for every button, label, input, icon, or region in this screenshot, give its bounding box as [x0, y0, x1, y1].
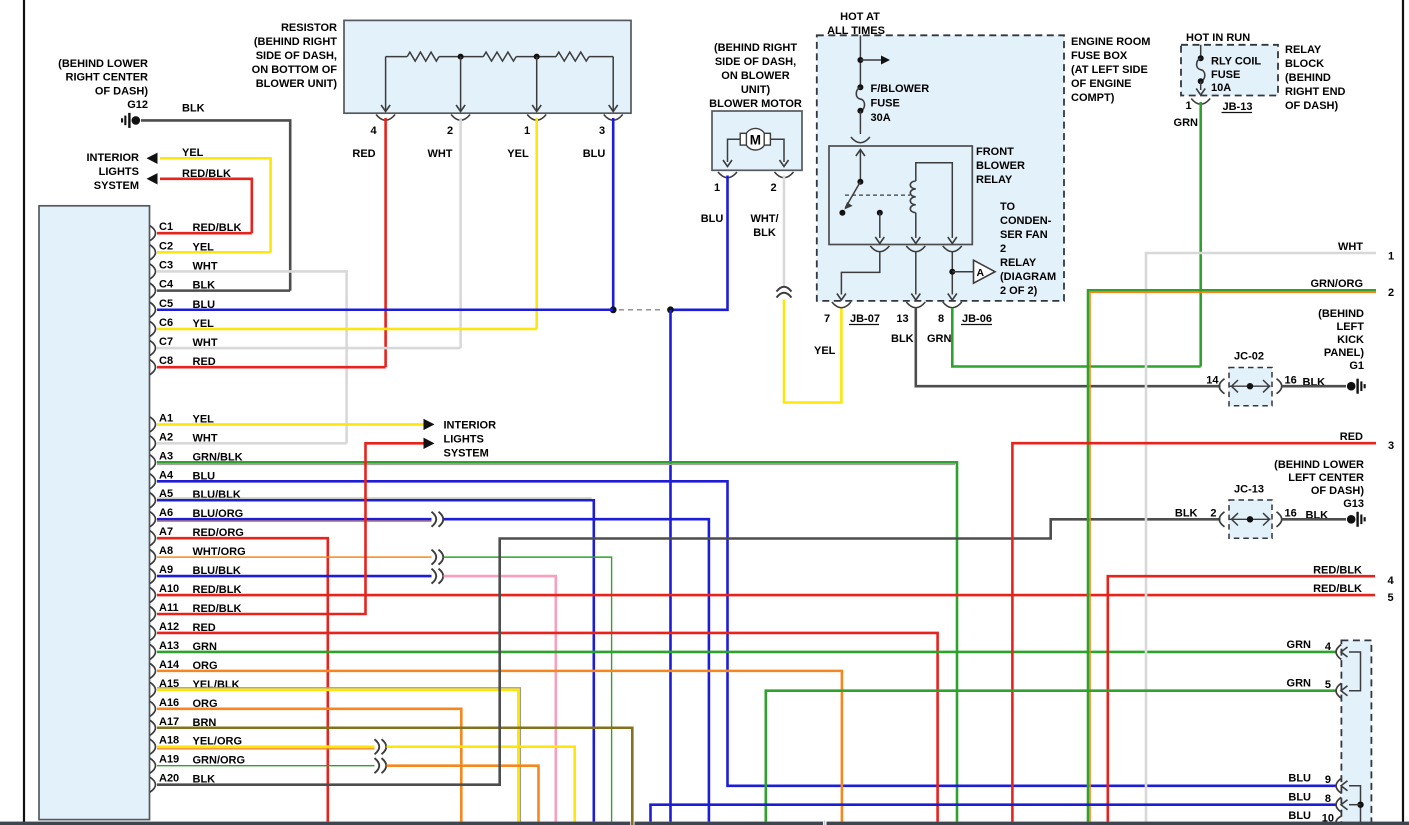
svg-text:A12: A12 — [159, 621, 179, 633]
svg-text:1: 1 — [714, 182, 720, 194]
terminal A16 — [150, 701, 156, 716]
svg-text:YEL: YEL — [814, 345, 836, 357]
wire A6 BLU/ORG — [157, 518, 432, 521]
svg-text:GRN/ORG: GRN/ORG — [1310, 278, 1363, 290]
svg-text:ON BOTTOM OF: ON BOTTOM OF — [252, 64, 338, 76]
svg-text:2 OF 2): 2 OF 2) — [1000, 285, 1038, 297]
wire A10 RED/BLK to edge wire 5 — [157, 594, 1375, 597]
resistor block box — [344, 20, 631, 113]
cup above relay — [851, 137, 870, 143]
svg-text:RELAY: RELAY — [976, 174, 1013, 186]
svg-text:SIDE OF DASH,: SIDE OF DASH, — [715, 56, 796, 68]
svg-text:A10: A10 — [159, 583, 179, 595]
svg-text:JB-07: JB-07 — [850, 313, 880, 325]
arrow interior lights A11 — [424, 438, 435, 449]
inline connector on WHT/BLK wire — [777, 287, 792, 292]
svg-text:3: 3 — [599, 125, 605, 137]
rly coil fuse 10A — [1200, 45, 1202, 58]
svg-text:JB-13: JB-13 — [1223, 101, 1253, 113]
relay switch common dot — [857, 179, 863, 185]
svg-text:RESISTOR: RESISTOR — [281, 22, 337, 34]
jumper GRN 4-5 — [1349, 652, 1361, 691]
svg-text:A14: A14 — [159, 659, 180, 671]
svg-text:PANEL): PANEL) — [1324, 347, 1364, 359]
svg-text:HOT AT: HOT AT — [840, 11, 880, 23]
wire A8 WHT/ORG — [157, 556, 432, 558]
wire BLU node down to bottom — [669, 310, 672, 822]
svg-text:RED: RED — [1340, 431, 1363, 443]
wire WHT edge 1 — [1146, 253, 1376, 822]
inline connector A18 — [375, 739, 380, 754]
wire A3 GRN/BLK — [157, 462, 957, 821]
svg-text:A7: A7 — [159, 526, 173, 538]
svg-text:SYSTEM: SYSTEM — [94, 180, 139, 192]
motor lead 2 — [770, 139, 784, 162]
svg-text:BLU: BLU — [1288, 792, 1311, 804]
terminal A13 — [150, 644, 156, 659]
front blower relay box — [829, 146, 972, 245]
arrow to interior lights YEL — [147, 153, 158, 164]
svg-text:A11: A11 — [159, 602, 179, 614]
terminal A3 — [150, 455, 156, 470]
svg-text:BLU: BLU — [1288, 773, 1311, 785]
svg-text:2: 2 — [447, 125, 453, 137]
terminal A20 — [150, 777, 156, 792]
svg-text:KICK: KICK — [1337, 334, 1364, 346]
svg-text:F/BLOWER: F/BLOWER — [871, 83, 930, 95]
terminal A11 — [150, 607, 156, 622]
wire A15 YEL/BLK — [157, 690, 518, 822]
resistor pin 3 lead — [612, 57, 614, 111]
wire BLK JC-02 to G1 — [1282, 385, 1346, 388]
wire BLK JB pin13 to JC-02 — [916, 308, 1221, 386]
svg-text:16: 16 — [1285, 508, 1297, 520]
wire A5 BLU/BLK — [157, 500, 594, 821]
wire A9 BLU/BLK — [157, 575, 432, 578]
svg-text:C1: C1 — [159, 221, 173, 233]
inline connector A19 — [375, 758, 380, 773]
svg-text:YEL: YEL — [182, 147, 204, 159]
svg-text:BLK: BLK — [1175, 508, 1198, 520]
terminal A2 — [150, 436, 156, 451]
svg-text:TO: TO — [1000, 201, 1016, 213]
svg-text:G12: G12 — [127, 99, 148, 111]
wire YEL blower pin2 to JB-07 pin7 — [784, 300, 841, 403]
terminal C7 — [150, 341, 156, 356]
wire A2 WHT — [157, 442, 347, 445]
ground symbol G12 — [132, 116, 141, 125]
svg-text:(BEHIND LOWER: (BEHIND LOWER — [1274, 459, 1364, 471]
wire GRN JB-13 pin1 down — [1199, 102, 1202, 367]
relay pin wire (switch output) — [879, 213, 881, 238]
terminal A15 — [150, 682, 156, 697]
terminal C5 — [150, 302, 156, 317]
svg-text:SER FAN: SER FAN — [1000, 229, 1048, 241]
svg-text:C8: C8 — [159, 355, 173, 367]
svg-text:9: 9 — [1325, 774, 1331, 786]
wire A19 GRN/ORG — [157, 765, 375, 767]
svg-text:LIGHTS: LIGHTS — [444, 434, 484, 446]
svg-text:1: 1 — [1388, 251, 1394, 263]
svg-text:7: 7 — [824, 313, 830, 325]
svg-text:A6: A6 — [159, 507, 173, 519]
svg-text:8: 8 — [938, 313, 944, 325]
engine room fuse box (dashed) — [817, 35, 1064, 301]
wire A20 BLK to JC-13 — [157, 519, 1221, 784]
ground symbol G13 — [1347, 515, 1356, 524]
svg-text:WHT/ORG: WHT/ORG — [193, 546, 246, 558]
resistor node dot right — [534, 54, 540, 60]
wire WHT resistor pin2 to C7 — [459, 118, 462, 348]
svg-text:(BEHIND: (BEHIND — [1318, 308, 1364, 320]
terminal A14 — [150, 663, 156, 678]
svg-text:5: 5 — [1387, 592, 1393, 604]
svg-text:FUSE BOX: FUSE BOX — [1071, 50, 1128, 62]
resistor pin 1 lead — [536, 57, 538, 111]
svg-text:C6: C6 — [159, 317, 173, 329]
svg-text:LEFT: LEFT — [1337, 321, 1365, 333]
arrow to interior lights RED/BLK — [147, 173, 158, 184]
terminal C2 — [150, 245, 156, 260]
svg-text:16: 16 — [1285, 375, 1297, 387]
svg-text:14: 14 — [1206, 375, 1219, 387]
svg-text:A4: A4 — [159, 469, 174, 481]
svg-text:GRN: GRN — [1287, 678, 1312, 690]
wire BLK JC-13 to G13 — [1282, 518, 1346, 521]
arrow interior lights A1 — [424, 419, 435, 430]
relay bottom cups — [870, 246, 889, 252]
svg-text:(BEHIND RIGHT: (BEHIND RIGHT — [254, 36, 337, 48]
svg-text:5: 5 — [1325, 679, 1331, 691]
svg-text:2: 2 — [1388, 287, 1394, 299]
wire C5 BLU — [157, 308, 613, 311]
svg-text:CONDEN-: CONDEN- — [1000, 215, 1052, 227]
ground symbol G1 — [1347, 382, 1356, 391]
relay coil bottom lead — [915, 213, 917, 238]
resistor element wire with three resistors — [386, 56, 408, 58]
dashed splice link — [619, 309, 664, 311]
svg-text:WHT/: WHT/ — [750, 213, 778, 225]
svg-text:8: 8 — [1325, 793, 1331, 805]
terminal C8 — [150, 360, 156, 375]
svg-text:A2: A2 — [159, 431, 173, 443]
fuse F/BLOWER 30A — [857, 84, 863, 90]
svg-text:BLU: BLU — [1288, 810, 1311, 822]
svg-text:C5: C5 — [159, 298, 173, 310]
wire GRN JB pin8 to relay block — [952, 308, 1200, 367]
svg-text:GRN: GRN — [1287, 639, 1312, 651]
jumper BLU 9-8-10 — [1349, 786, 1361, 823]
svg-text:OF DASH): OF DASH) — [1311, 485, 1365, 497]
terminal A18 — [150, 739, 156, 754]
wire A4 BLU to connector pin9 — [157, 481, 1336, 786]
svg-text:UNIT): UNIT) — [741, 84, 771, 96]
wire RED/BLK interior lights to C1 — [160, 179, 252, 233]
svg-text:BLOWER MOTOR: BLOWER MOTOR — [709, 98, 802, 110]
motor lead 1 — [728, 139, 741, 162]
relay block JB-13 (dashed) — [1181, 45, 1278, 96]
wire fuse to relay — [859, 111, 861, 134]
wire A6 BLU continuation — [444, 519, 709, 821]
svg-text:A19: A19 — [159, 754, 179, 766]
terminal A4 — [150, 474, 156, 489]
wire WHT/BLK blower pin2 down — [783, 176, 786, 288]
svg-text:1: 1 — [524, 125, 530, 137]
svg-text:RED/BLK: RED/BLK — [1313, 565, 1362, 577]
relay actuation dashed link — [845, 194, 910, 196]
svg-text:4: 4 — [1387, 575, 1394, 587]
svg-text:A8: A8 — [159, 545, 173, 557]
terminal C6 — [150, 321, 156, 336]
svg-text:BLK: BLK — [891, 333, 914, 345]
page right border — [1402, 0, 1404, 825]
branch arrow right — [860, 59, 882, 61]
motor M symbol — [745, 128, 767, 150]
svg-text:RELAY: RELAY — [1285, 44, 1322, 56]
resistor node dot left — [458, 54, 464, 60]
node dot blower BLU — [667, 306, 674, 313]
svg-text:A16: A16 — [159, 697, 179, 709]
svg-text:JC-13: JC-13 — [1234, 484, 1264, 496]
svg-text:(BEHIND: (BEHIND — [1285, 72, 1331, 84]
wire A14 ORG — [157, 671, 842, 822]
wire A8 GRN continuation — [444, 557, 612, 821]
svg-text:BLOWER UNIT): BLOWER UNIT) — [256, 78, 338, 90]
terminal A5 — [150, 493, 156, 508]
svg-text:C7: C7 — [159, 336, 173, 348]
svg-text:2: 2 — [1210, 508, 1216, 520]
svg-text:4: 4 — [370, 125, 377, 137]
svg-text:SIDE OF DASH,: SIDE OF DASH, — [256, 50, 337, 62]
resistor pin 2 lead — [460, 57, 462, 111]
wire C1 RED/BLK — [157, 232, 252, 235]
blower motor box — [712, 111, 802, 170]
svg-text:BLK: BLK — [753, 227, 776, 239]
svg-text:A18: A18 — [159, 735, 179, 747]
relay input arrow up — [859, 151, 861, 182]
svg-text:LIGHTS: LIGHTS — [99, 166, 139, 178]
wire A11 RED/BLK to interior lights — [157, 443, 424, 614]
svg-text:30A: 30A — [871, 112, 891, 124]
svg-text:(BEHIND RIGHT: (BEHIND RIGHT — [714, 42, 797, 54]
fuse box bottom cups — [832, 302, 851, 308]
terminal A10 — [150, 588, 156, 603]
terminal C1 — [150, 226, 156, 241]
terminal A6 — [150, 512, 156, 527]
inline connector A9 — [432, 569, 437, 584]
svg-text:WHT: WHT — [427, 148, 452, 160]
wire C2 YEL — [157, 251, 271, 254]
svg-text:WHT: WHT — [1338, 241, 1363, 253]
svg-text:C3: C3 — [159, 259, 173, 271]
page left border — [23, 0, 25, 825]
wire BLU resistor pin3 to node — [612, 118, 615, 310]
bottom edge bar — [0, 822, 630, 825]
terminal A1 — [150, 417, 156, 432]
svg-text:ENGINE ROOM: ENGINE ROOM — [1071, 36, 1150, 48]
wire A9 PNK continuation — [444, 576, 556, 821]
wire A12 RED — [157, 633, 938, 822]
svg-text:10A: 10A — [1211, 82, 1231, 94]
svg-text:RIGHT CENTER: RIGHT CENTER — [66, 72, 149, 84]
wire C6 YEL — [157, 328, 537, 331]
wire BLU blower pin1 to node — [671, 176, 728, 310]
svg-text:JB-06: JB-06 — [962, 313, 992, 325]
wire YEL resistor pin1 to C6 — [535, 118, 538, 329]
inline connector A6 — [432, 512, 437, 527]
svg-text:BLOWER: BLOWER — [976, 160, 1025, 172]
svg-text:A3: A3 — [159, 450, 173, 462]
svg-text:RLY COIL: RLY COIL — [1211, 56, 1261, 68]
svg-text:4: 4 — [1325, 641, 1332, 653]
relay throw contact dot — [877, 210, 883, 216]
svg-text:GRN: GRN — [927, 333, 952, 345]
relay switch contact dot — [839, 210, 845, 216]
svg-text:HOT IN RUN: HOT IN RUN — [1186, 32, 1250, 44]
wire A18 YEL continuation — [387, 747, 575, 822]
svg-text:FRONT: FRONT — [976, 146, 1014, 158]
wire C8 RED — [157, 366, 386, 369]
wire A17 BRN — [157, 728, 632, 825]
resistor pin 4 lead — [385, 57, 387, 111]
wire relay pin to JB-07 terminal 7 — [841, 251, 879, 295]
svg-text:A20: A20 — [159, 773, 179, 785]
svg-text:2: 2 — [1000, 243, 1006, 255]
wire A7 RED/ORG — [157, 538, 328, 821]
wire BLK G12 to C4 — [141, 120, 290, 290]
svg-text:INTERIOR: INTERIOR — [86, 152, 139, 164]
relay switch arm — [845, 182, 860, 208]
svg-text:LEFT CENTER: LEFT CENTER — [1288, 472, 1364, 484]
svg-text:G13: G13 — [1343, 498, 1364, 510]
svg-text:FUSE: FUSE — [1211, 69, 1240, 81]
svg-text:OF ENGINE: OF ENGINE — [1071, 78, 1132, 90]
wire A16 ORG — [157, 709, 461, 822]
wire GRN edge 5 terminal — [766, 691, 1336, 822]
svg-text:OF DASH): OF DASH) — [1285, 100, 1339, 112]
wire RED edge 3 — [1012, 443, 1376, 821]
svg-text:C4: C4 — [159, 279, 174, 291]
svg-text:BLU: BLU — [701, 213, 724, 225]
svg-text:(AT LEFT SIDE: (AT LEFT SIDE — [1071, 64, 1148, 76]
svg-text:A9: A9 — [159, 564, 173, 576]
svg-text:JC-02: JC-02 — [1234, 351, 1264, 363]
wire A18 YEL/ORG — [157, 745, 375, 748]
terminal A17 — [150, 720, 156, 735]
svg-text:ON BLOWER: ON BLOWER — [721, 70, 789, 82]
wire RED/BLK edge 4 — [1108, 576, 1375, 821]
svg-text:RED/BLK: RED/BLK — [182, 168, 231, 180]
terminal A8 — [150, 550, 156, 565]
inline connector A8 — [432, 550, 437, 565]
wire YEL interior lights to C2 — [160, 158, 271, 252]
terminal C3 — [150, 264, 156, 279]
svg-text:M: M — [750, 132, 761, 147]
branch node dot — [857, 57, 863, 63]
svg-text:RIGHT END: RIGHT END — [1285, 86, 1346, 98]
wire relay pin 13 down — [915, 251, 917, 295]
svg-text:A13: A13 — [159, 640, 179, 652]
wire A13 GRN to connector pin4 — [157, 651, 1336, 654]
node dot C5/resistor BLU — [610, 306, 617, 313]
svg-text:G1: G1 — [1349, 360, 1364, 372]
svg-text:COMPT): COMPT) — [1071, 92, 1115, 104]
svg-text:OF DASH): OF DASH) — [95, 85, 149, 97]
wire A1 YEL to interior lights — [157, 423, 424, 426]
wire GRN/ORG edge 2 — [1088, 290, 1376, 821]
blower pin cups — [718, 172, 737, 178]
right connector block (dashed) — [1341, 640, 1371, 825]
connector C/A block (left, light blue) — [39, 206, 150, 820]
svg-text:GRN: GRN — [1174, 117, 1199, 129]
svg-text:13: 13 — [896, 313, 908, 325]
wire BLU edge 8 terminal — [651, 805, 1337, 822]
svg-text:FUSE: FUSE — [871, 98, 900, 110]
wire relay pin 8 down — [951, 251, 953, 295]
wire C7 WHT — [157, 347, 461, 350]
svg-text:BLOCK: BLOCK — [1285, 58, 1324, 70]
svg-text:RED: RED — [352, 148, 375, 160]
svg-text:SYSTEM: SYSTEM — [444, 448, 489, 460]
relay coil — [910, 181, 915, 213]
svg-text:YEL: YEL — [507, 148, 529, 160]
svg-text:GRN/ORG: GRN/ORG — [193, 755, 246, 767]
wire RED resistor pin4 to C8 — [384, 118, 387, 367]
svg-text:1: 1 — [1185, 100, 1191, 112]
terminal A19 — [150, 758, 156, 773]
terminal A7 — [150, 531, 156, 546]
terminal A12 — [150, 625, 156, 640]
terminal C4 — [150, 283, 156, 298]
svg-text:(DIAGRAM: (DIAGRAM — [1000, 271, 1056, 283]
tap dot to condenser relay — [949, 269, 955, 275]
svg-text:ALL TIMES: ALL TIMES — [827, 25, 885, 37]
svg-text:RED/BLK: RED/BLK — [1313, 583, 1362, 595]
terminal A9 — [150, 569, 156, 584]
svg-text:3: 3 — [1388, 440, 1394, 452]
svg-text:INTERIOR: INTERIOR — [444, 420, 497, 432]
wire C4 BLK — [157, 289, 290, 292]
svg-text:A: A — [977, 267, 985, 279]
svg-text:BLK: BLK — [182, 103, 205, 115]
svg-text:A1: A1 — [159, 412, 173, 424]
svg-text:A17: A17 — [159, 716, 179, 728]
svg-text:BLU: BLU — [583, 148, 606, 160]
svg-text:C2: C2 — [159, 240, 173, 252]
wire C3 WHT to A2 junction — [157, 271, 347, 443]
relay coil top link — [916, 163, 953, 238]
wire to A triangle — [952, 271, 973, 273]
JB-13 bottom cup — [1191, 99, 1210, 105]
resistor pin cups — [376, 115, 395, 121]
svg-text:RELAY: RELAY — [1000, 257, 1037, 269]
A symbol triangle — [974, 260, 996, 283]
wire A19 ORG continuation — [387, 766, 539, 822]
svg-text:2: 2 — [770, 182, 776, 194]
feed wire from HOT AT ALL TIMES — [859, 35, 861, 87]
svg-text:(BEHIND LOWER: (BEHIND LOWER — [58, 58, 148, 70]
